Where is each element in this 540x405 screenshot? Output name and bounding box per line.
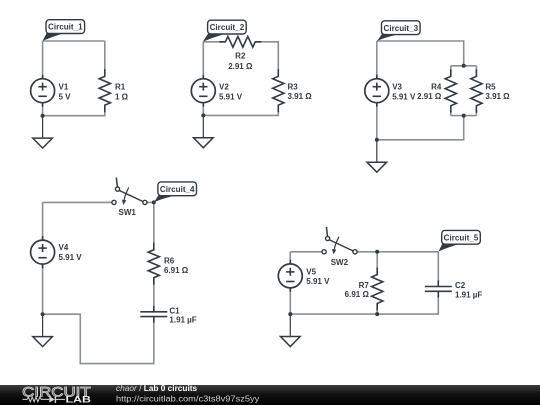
- wire switch to node circuit4: [147, 201, 154, 203]
- wire top circuit3: [377, 41, 464, 66]
- wire left circuit5 upper: [289, 252, 291, 264]
- node label Circuit_3: [377, 21, 420, 41]
- wire left circuit5 lower: [289, 288, 291, 314]
- resistor R7: [372, 268, 383, 311]
- label R2 2.91 ohm: [228, 52, 253, 71]
- svg-text:Circuit_3: Circuit_3: [383, 24, 418, 33]
- junction node circuit5 gnd: [288, 312, 292, 316]
- svg-text:5.91 V: 5.91 V: [392, 92, 416, 101]
- junction parallel bottom: [462, 114, 466, 118]
- wire top circuit1: [43, 40, 105, 42]
- svg-text:5.91 V: 5.91 V: [219, 92, 243, 101]
- node label Circuit_5: [439, 230, 481, 251]
- wire top-left circuit2: [203, 41, 225, 43]
- wire left circuit2 upper: [202, 42, 204, 79]
- label R5 3.91 ohm: [485, 82, 510, 101]
- svg-text:2.91 Ω: 2.91 Ω: [228, 62, 253, 71]
- wire left circuit4 upper: [42, 202, 44, 240]
- wire bottom loop circuit4: [43, 314, 154, 363]
- wire R5 bottom stub: [475, 109, 477, 116]
- resistor R2: [219, 36, 261, 47]
- node label Circuit_4: [154, 182, 197, 203]
- resistor R4: [445, 69, 456, 113]
- junction node circuit3 gnd: [375, 138, 379, 142]
- wire R4 bottom stub: [450, 109, 452, 116]
- circuit 3 group: [365, 21, 510, 172]
- svg-text:SW2: SW2: [331, 258, 349, 267]
- circuit 1 group: [31, 20, 129, 148]
- svg-text:6.91 Ω: 6.91 Ω: [164, 266, 189, 275]
- label R3 3.91 ohm: [288, 82, 313, 101]
- label V3 5.91 V: [392, 82, 416, 101]
- capacitor C2: [425, 280, 452, 297]
- resistor R6: [148, 243, 159, 285]
- wire parallel top bus: [451, 65, 477, 67]
- svg-text:3.91 Ω: 3.91 Ω: [485, 92, 510, 101]
- wire right circuit1 upper: [104, 41, 106, 70]
- label R4 2.91 ohm: [417, 82, 442, 101]
- wire top-left circuit4: [43, 201, 112, 203]
- resistor R3: [273, 69, 284, 112]
- wire left circuit3 lower: [376, 103, 378, 140]
- svg-text:Circuit_2: Circuit_2: [210, 23, 245, 32]
- switch SW1: [112, 178, 147, 206]
- footer bar: [0, 385, 540, 405]
- node label Circuit_1: [43, 20, 85, 41]
- svg-text:C2: C2: [455, 281, 466, 290]
- wire switch to C2 circuit5: [357, 252, 438, 282]
- node label Circuit_2: [203, 20, 246, 42]
- junction node circuit1 gnd: [41, 114, 45, 118]
- junction node circuit5 top: [375, 250, 379, 254]
- label C1 1.91 uF: [169, 307, 196, 325]
- voltage source V1: [31, 75, 55, 107]
- svg-text:LAB: LAB: [66, 394, 91, 404]
- label V1 5 V: [59, 82, 72, 101]
- label V4 5.91 V: [59, 243, 83, 262]
- svg-text:5.91 V: 5.91 V: [59, 253, 83, 262]
- wire R4 top stub: [450, 66, 452, 72]
- wire R5 top stub: [475, 66, 477, 72]
- wire left circuit1 lower: [42, 103, 44, 116]
- ground circuit5: [281, 314, 301, 346]
- circuit 2 group: [191, 20, 312, 148]
- svg-text:R3: R3: [288, 82, 299, 91]
- wire left circuit3 upper: [376, 41, 378, 79]
- label V2 5.91 V: [219, 82, 243, 101]
- svg-text:V4: V4: [59, 243, 69, 252]
- label R7 6.91 ohm: [345, 281, 370, 299]
- ground circuit2: [194, 115, 214, 147]
- wire R7 top: [376, 252, 378, 268]
- svg-text:V1: V1: [59, 82, 69, 91]
- label V5 5.91 V: [306, 267, 330, 286]
- logo CIRCUIT LAB: [22, 384, 91, 404]
- switch SW2: [322, 227, 357, 255]
- voltage source V4: [31, 236, 55, 268]
- wire top-left circuit5: [290, 251, 322, 253]
- svg-text:1.91 µF: 1.91 µF: [455, 291, 482, 300]
- svg-text:C1: C1: [169, 307, 180, 316]
- svg-text:1 Ω: 1 Ω: [115, 92, 129, 101]
- resistor R5: [471, 69, 482, 113]
- junction node circuit4 gnd: [41, 312, 45, 316]
- wire parallel bottom bus: [451, 115, 477, 117]
- wire top-right circuit2: [255, 42, 278, 70]
- ground circuit4: [33, 314, 53, 346]
- voltage source V5: [278, 260, 302, 292]
- svg-text:R2: R2: [235, 52, 246, 61]
- wire left circuit1 upper: [42, 41, 44, 79]
- svg-text:V2: V2: [219, 82, 229, 91]
- junction node circuit2 gnd: [201, 113, 205, 117]
- svg-text:2.91 Ω: 2.91 Ω: [417, 92, 442, 101]
- wire left circuit2 lower: [202, 103, 204, 116]
- svg-text:R6: R6: [164, 256, 175, 265]
- svg-text:6.91 Ω: 6.91 Ω: [345, 290, 370, 299]
- svg-text:R7: R7: [359, 281, 370, 290]
- svg-text:chaor / Lab 0 circuits: chaor / Lab 0 circuits: [116, 383, 198, 393]
- wire R6 top: [153, 202, 155, 243]
- wire left circuit4 lower: [42, 264, 44, 314]
- svg-text:V3: V3: [392, 82, 402, 91]
- svg-text:3.91 Ω: 3.91 Ω: [288, 92, 313, 101]
- svg-text:V5: V5: [306, 267, 316, 276]
- svg-text:1.91 µF: 1.91 µF: [169, 316, 196, 325]
- capacitor C1: [140, 306, 167, 323]
- resistor R1: [99, 69, 110, 112]
- wire under C1 stub: [153, 317, 155, 319]
- svg-text:R5: R5: [485, 82, 496, 91]
- wire R7 bottom: [376, 308, 378, 314]
- wire bottom circuit5: [290, 295, 438, 314]
- svg-text:5.91 V: 5.91 V: [306, 277, 330, 286]
- svg-text:Circuit_4: Circuit_4: [160, 185, 195, 194]
- svg-text:Circuit_1: Circuit_1: [48, 23, 83, 32]
- label R6 6.91 ohm: [164, 256, 189, 275]
- svg-text:SW1: SW1: [119, 208, 137, 217]
- svg-text:R4: R4: [431, 82, 442, 91]
- junction node circuit4 top: [152, 200, 156, 204]
- wire bottom circuit3: [377, 116, 464, 140]
- wire bottom circuit2: [203, 111, 278, 115]
- circuit 4 group: [31, 178, 197, 364]
- junction node circuit5 bottom: [375, 312, 379, 316]
- label C2 1.91 uF: [455, 281, 482, 299]
- circuit 5 group: [278, 227, 482, 347]
- label R1 1 ohm: [115, 82, 129, 101]
- ground circuit1: [33, 116, 53, 148]
- svg-text:5 V: 5 V: [59, 92, 72, 101]
- voltage source V3: [365, 75, 389, 107]
- svg-text:http://circuitlab.com/c3ts8v97: http://circuitlab.com/c3ts8v97sz5yy: [116, 394, 260, 404]
- wire R6 to C1: [153, 284, 155, 306]
- junction parallel top: [462, 64, 466, 68]
- voltage source V2: [191, 75, 215, 107]
- svg-text:Circuit_5: Circuit_5: [444, 233, 479, 242]
- ground circuit3: [367, 140, 387, 172]
- wire bottom circuit1: [43, 111, 105, 116]
- svg-text:R1: R1: [115, 82, 126, 91]
